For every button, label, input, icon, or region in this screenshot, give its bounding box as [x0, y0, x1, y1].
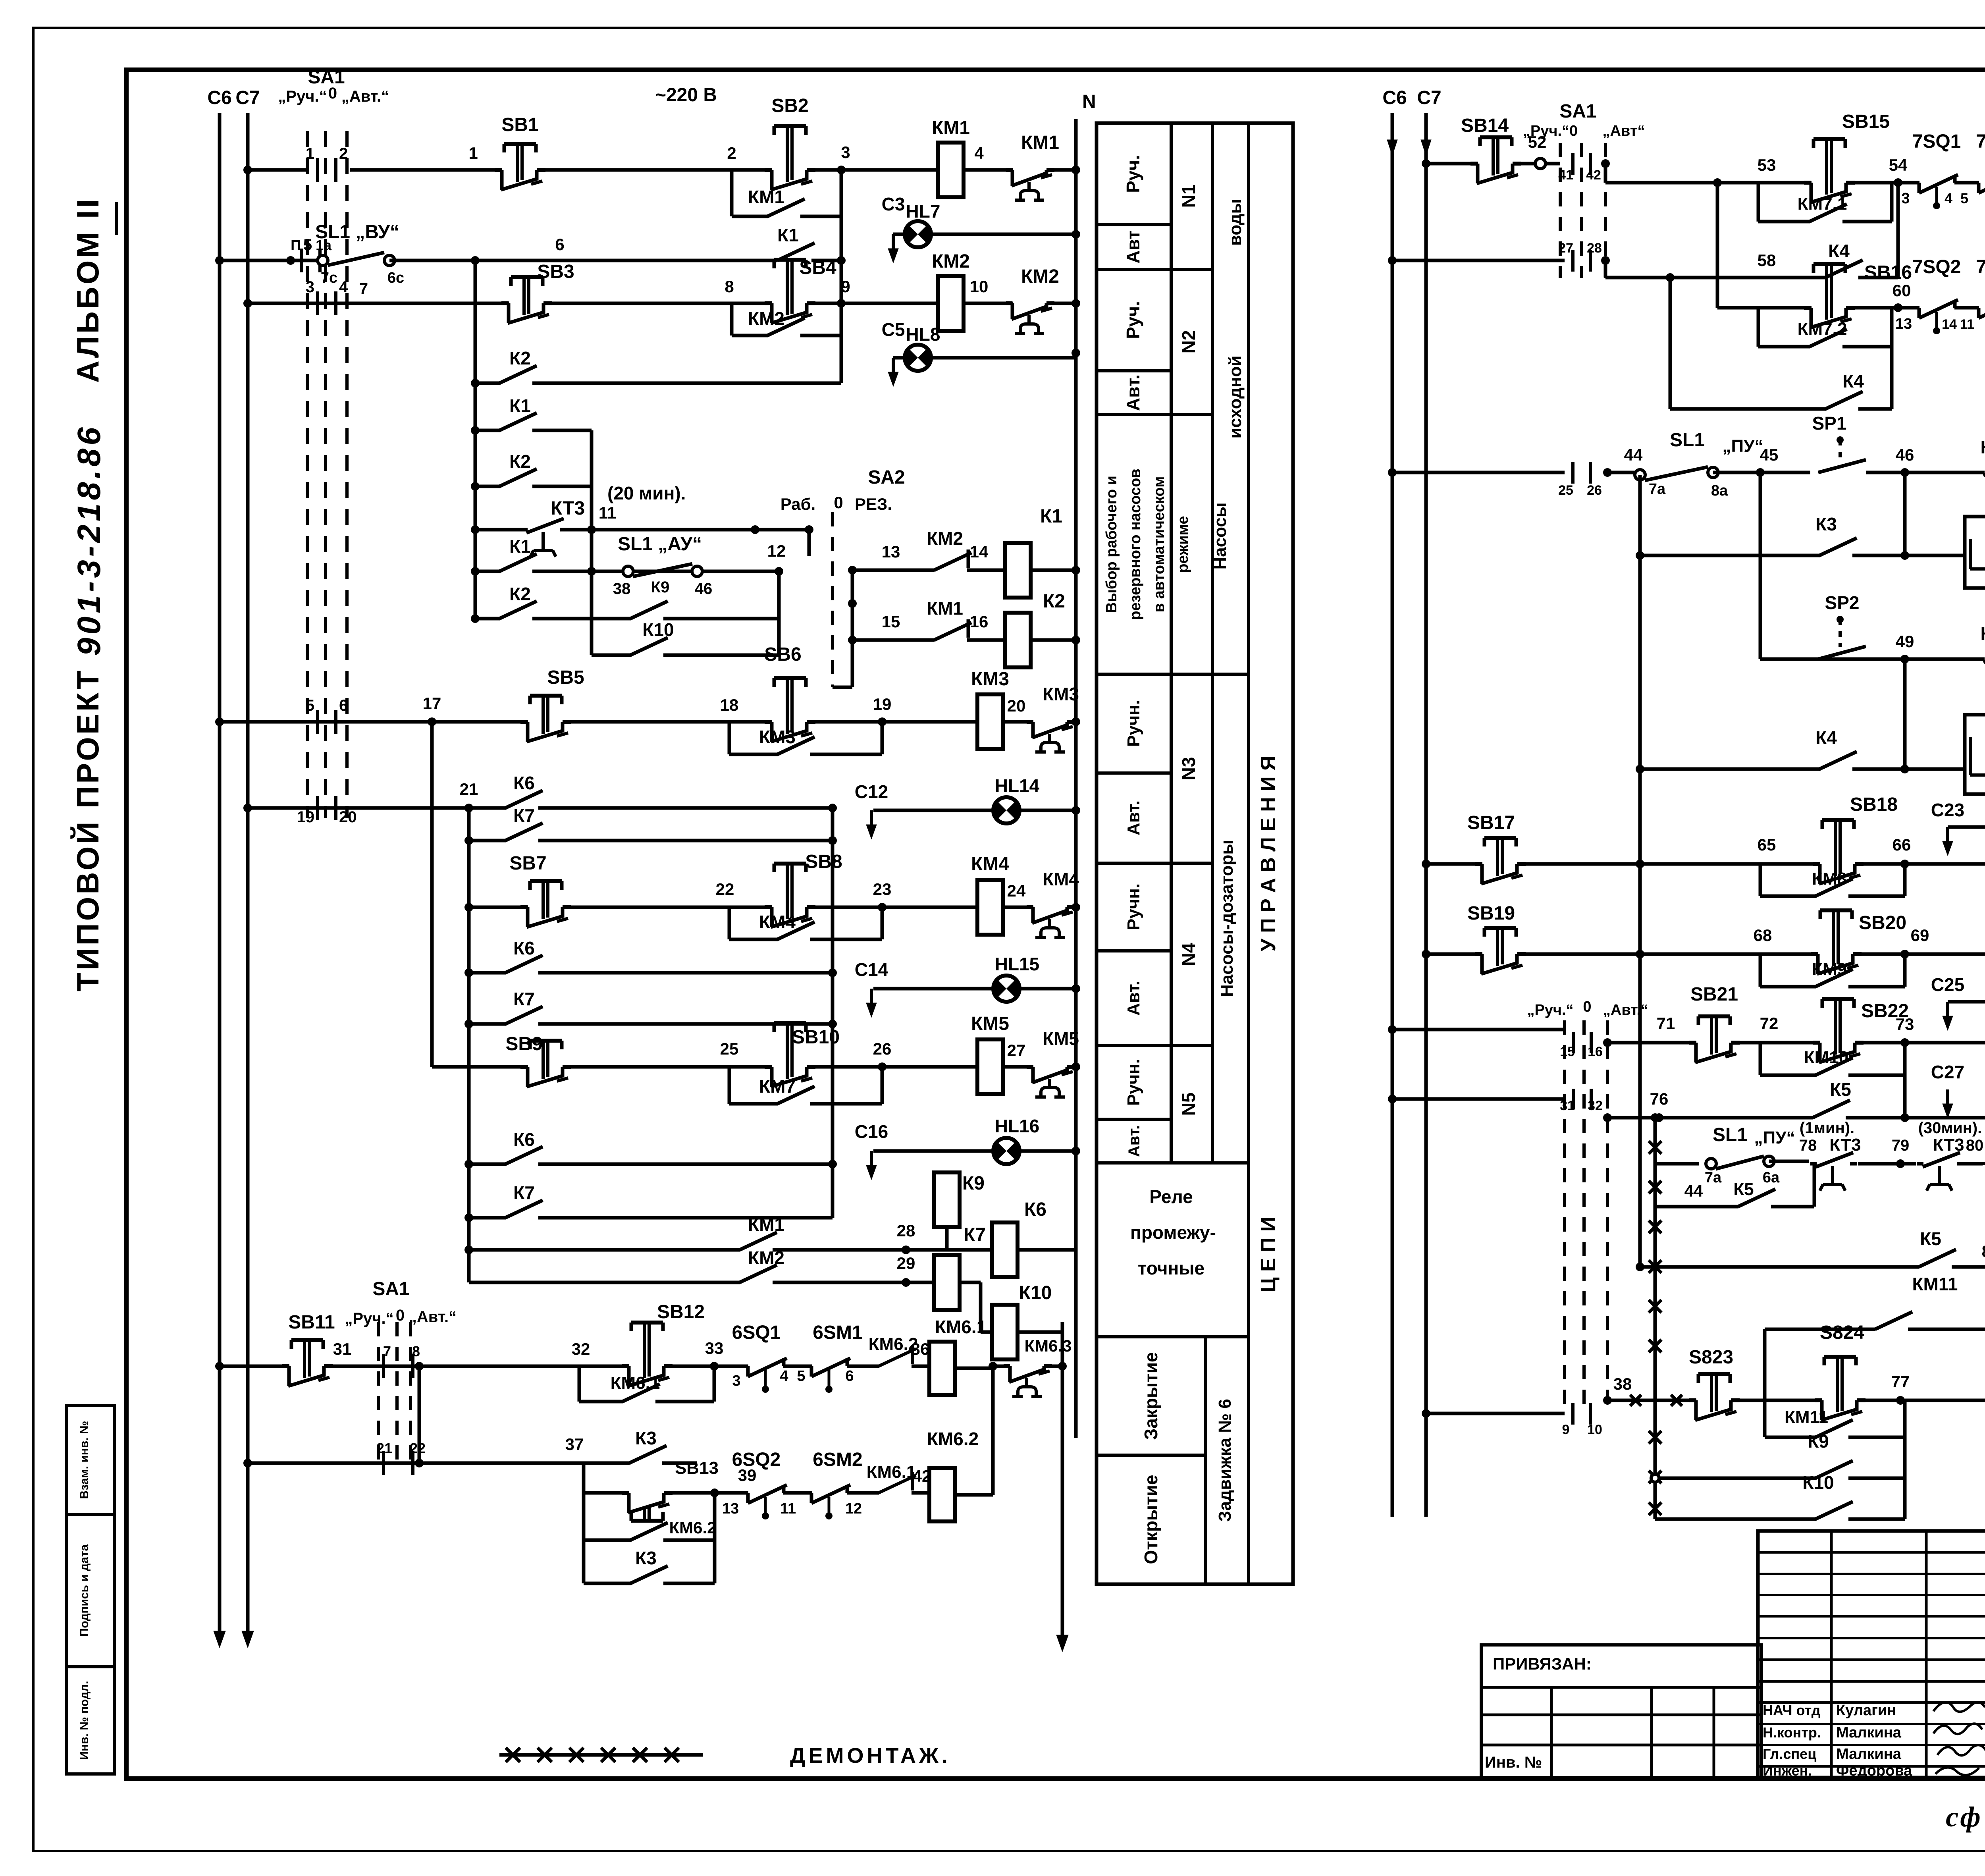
svg-text:79: 79 [1892, 1137, 1910, 1154]
svg-text:К6: К6 [513, 938, 535, 958]
svg-text:Инжен.: Инжен. [1763, 1762, 1812, 1779]
svg-text:„Авт.“: „Авт.“ [409, 1308, 457, 1326]
svg-text:Н.контр.: Н.контр. [1763, 1724, 1821, 1741]
svg-text:Авт: Авт [1123, 230, 1143, 263]
switch SL1 AU [623, 566, 633, 576]
lamp rung HL8 [892, 358, 895, 375]
lamp HL8 [905, 345, 931, 371]
lamp HL14 [993, 797, 1019, 823]
rail from node 17 [430, 722, 434, 1067]
aux contact KM3 [1033, 719, 1068, 725]
svg-text:Насосы: Насосы [1210, 502, 1230, 569]
svg-text:52: 52 [1528, 133, 1547, 151]
contact KM7.2 selfhold [1810, 344, 1842, 349]
wire selfhold KM10 [1759, 1043, 1762, 1075]
svg-text:Авт.: Авт. [1124, 800, 1143, 835]
svg-text:К9: К9 [962, 1173, 985, 1194]
wire rung K1 ladder [475, 429, 592, 432]
lamp rung HL17 [1946, 827, 1949, 844]
svg-text:71: 71 [1657, 1014, 1675, 1033]
svg-text:7: 7 [383, 1343, 391, 1359]
wire rung K3 bottom [584, 1582, 715, 1585]
svg-text:К6: К6 [513, 1129, 535, 1150]
wire KM6.1 to node [955, 1367, 993, 1370]
svg-text:3: 3 [1901, 190, 1910, 207]
demontage legend [499, 1753, 703, 1757]
push button SB9 [528, 1064, 564, 1070]
contact KM11 rung [1875, 1327, 1908, 1332]
svg-text:6: 6 [845, 1368, 854, 1384]
contact KM1 selfhold [768, 214, 800, 219]
svg-text:1: 1 [468, 144, 478, 162]
svg-text:HL14: HL14 [995, 775, 1040, 796]
svg-text:„Руч.“: „Руч.“ [1527, 1002, 1573, 1018]
wire rung K5 KT3 box [1640, 1265, 1985, 1269]
node 73 [1900, 1038, 1909, 1047]
svg-text:К7: К7 [513, 1182, 535, 1203]
svg-text:42: 42 [1586, 168, 1601, 183]
wire rung K7 third [469, 1216, 833, 1220]
svg-text:38: 38 [613, 580, 631, 598]
relay coil K2 [1005, 613, 1031, 667]
sidebar bottom boxes [67, 1406, 114, 1774]
wire rung SB23 77 [1422, 1409, 1430, 1418]
svg-text:КМ6.1: КМ6.1 [611, 1373, 660, 1393]
svg-text:26: 26 [873, 1039, 892, 1058]
svg-text:25: 25 [1558, 483, 1573, 498]
svg-text:КМ10: КМ10 [1804, 1048, 1848, 1067]
svg-text:C3: C3 [882, 194, 905, 214]
rail SB16 [1716, 183, 1719, 308]
svg-text:SB18: SB18 [1850, 794, 1898, 815]
node 54 [1894, 178, 1902, 187]
svg-text:54: 54 [1889, 156, 1908, 174]
lamp HL15 [993, 976, 1019, 1002]
wire rung KM1 to relays [469, 1248, 992, 1252]
svg-text:65: 65 [1758, 835, 1776, 854]
jumper C7 to terminals 1 2 [248, 168, 307, 172]
svg-text:КТ3: КТ3 [551, 498, 585, 519]
collector to next sheet [1052, 1365, 1062, 1368]
wire rung 53 KM7.1 [1604, 164, 1607, 183]
svg-text:режиме: режиме [1175, 516, 1191, 573]
svg-text:„Авт.“: „Авт.“ [1603, 1002, 1648, 1018]
push button SB3 [509, 301, 545, 306]
svg-text:SB21: SB21 [1690, 984, 1738, 1005]
wire rung K6 third [469, 1163, 833, 1166]
svg-text:К5: К5 [1733, 1180, 1754, 1199]
wire KT3 to KT3 [1858, 1162, 1916, 1166]
svg-text:20: 20 [339, 808, 357, 826]
svg-text:1: 1 [306, 145, 314, 162]
wire rung K10 [592, 654, 779, 657]
contact K7 second [506, 1021, 538, 1027]
svg-text:КМ3: КМ3 [1043, 684, 1079, 704]
lamp HL7 [905, 221, 931, 247]
svg-text:10: 10 [970, 277, 989, 296]
svg-text:Открытие: Открытие [1141, 1475, 1161, 1564]
svg-text:воды: воды [1226, 199, 1245, 246]
terminals 5 6 [316, 710, 319, 734]
svg-text:(20 мин).: (20 мин). [607, 483, 686, 503]
svg-text:15: 15 [882, 612, 900, 631]
svg-text:Инв. №: Инв. № [1485, 1754, 1542, 1771]
contact KM6.1 interlock [879, 1490, 912, 1496]
svg-text:14: 14 [970, 542, 989, 561]
svg-text:3: 3 [306, 278, 314, 296]
contact KM2 relay rung [740, 1280, 773, 1285]
svg-text:7SM1: 7SM1 [1976, 131, 1985, 152]
svg-text:КМ1: КМ1 [748, 187, 784, 207]
svg-text:SL1 „ВУ“: SL1 „ВУ“ [315, 222, 399, 243]
svg-text:SB1: SB1 [501, 114, 538, 135]
svg-text:SB20: SB20 [1859, 912, 1906, 933]
push button SB23 [1696, 1398, 1732, 1403]
wire selfhold KM7 [728, 1067, 731, 1104]
contact K1 [778, 258, 810, 263]
left table frame [1097, 123, 1293, 1584]
node 33 [710, 1362, 719, 1371]
lamp HL9 [1946, 1089, 1949, 1107]
svg-text:6SM2: 6SM2 [813, 1449, 862, 1470]
svg-text:К3: К3 [635, 1428, 657, 1448]
node 21 [464, 804, 473, 812]
right rail lower ladder [831, 808, 834, 1218]
svg-text:SB13: SB13 [675, 1458, 719, 1478]
svg-text:КМ6.2: КМ6.2 [927, 1429, 979, 1449]
wire K7 coil to K10 [960, 1281, 981, 1284]
title block signature grid [1758, 1531, 1985, 1778]
svg-text:сф 728-01: сф 728-01 [1946, 1801, 1985, 1833]
svg-text:„ПУ“: „ПУ“ [1723, 436, 1763, 456]
node 69 [1900, 950, 1909, 958]
push button SB7 [528, 904, 564, 910]
svg-text:исходной: исходной [1226, 355, 1245, 438]
wire rung SP2 [1760, 657, 1985, 661]
wire selfhold KM3 [728, 722, 731, 754]
svg-text:29: 29 [897, 1254, 915, 1273]
svg-text:S824: S824 [1820, 1322, 1864, 1343]
wire rung K6 second [469, 971, 833, 975]
svg-text:К6: К6 [1024, 1199, 1046, 1220]
switch SL1 VU [318, 255, 328, 266]
aux contact KM6.3 [1010, 1363, 1045, 1369]
node 23 [878, 903, 887, 912]
push button SB6 [772, 719, 808, 725]
svg-text:КМ3: КМ3 [971, 669, 1009, 690]
wire rung 76 K5 [1388, 1095, 1397, 1103]
lamp rung HL15 [870, 989, 873, 1006]
svg-text:69: 69 [1911, 926, 1929, 945]
contact K2 lower [500, 616, 532, 621]
contact KM7 selfhold [778, 1101, 810, 1107]
svg-text:7SM2: 7SM2 [1976, 256, 1985, 278]
node 66 [1900, 860, 1909, 868]
wire rung K3 contact [1640, 554, 1965, 557]
wire rung SL1 PU lower [1655, 1162, 1699, 1166]
svg-text:3: 3 [732, 1373, 740, 1389]
svg-text:К5: К5 [1830, 1079, 1851, 1100]
svg-text:SL1 „АУ“: SL1 „АУ“ [618, 534, 702, 555]
svg-text:21: 21 [460, 780, 478, 798]
svg-text:К6: К6 [513, 773, 535, 793]
svg-text:КТ1: КТ1 [1981, 437, 1985, 457]
svg-text:SB5: SB5 [547, 667, 584, 688]
push button SB21 [1696, 1040, 1732, 1045]
svg-text:ПРИВЯЗАН:: ПРИВЯЗАН: [1493, 1654, 1592, 1673]
svg-text:КМ4: КМ4 [971, 854, 1009, 875]
svg-text:К7: К7 [964, 1224, 986, 1246]
contact K1 ladder [500, 428, 532, 433]
svg-text:45: 45 [1760, 445, 1779, 464]
svg-text:14: 14 [1942, 317, 1957, 332]
terminals P 1a [300, 249, 303, 272]
wire rung KT3 [475, 528, 809, 532]
svg-text:N5: N5 [1178, 1093, 1199, 1116]
time contact KT3 [528, 527, 560, 532]
svg-text:К4: К4 [1828, 241, 1850, 261]
svg-text:SL1: SL1 [1670, 430, 1705, 451]
svg-text:SB16: SB16 [1864, 262, 1912, 283]
svg-text:SB10: SB10 [792, 1027, 840, 1048]
svg-text:К5: К5 [1920, 1228, 1941, 1249]
contact K4 rung KT2 [1820, 766, 1852, 772]
rail node 12 down [777, 571, 781, 655]
svg-text:Руч.: Руч. [1123, 301, 1143, 339]
svg-text:C14: C14 [855, 959, 888, 980]
svg-text:Выбор рабочего и: Выбор рабочего и [1103, 476, 1120, 613]
node 17 [428, 717, 436, 726]
svg-text:83: 83 [1982, 1242, 1985, 1261]
svg-text:20: 20 [1007, 696, 1026, 715]
svg-text:промежу-: промежу- [1130, 1222, 1216, 1243]
svg-text:КМ4: КМ4 [759, 912, 796, 932]
svg-text:Авт.: Авт. [1125, 1125, 1143, 1157]
svg-text:Ц Е П И: Ц Е П И [1257, 1217, 1280, 1293]
svg-text:28: 28 [897, 1221, 915, 1240]
node 26 [878, 1062, 887, 1071]
svg-text:8а: 8а [1711, 482, 1728, 499]
svg-text:32: 32 [572, 1340, 590, 1358]
node 3 [837, 166, 846, 174]
svg-text:Малкина: Малкина [1836, 1746, 1902, 1762]
wire selfhold KM2 [730, 303, 734, 335]
svg-text:22: 22 [410, 1440, 426, 1456]
wire segments rung 82 [1961, 1162, 1983, 1166]
svg-text:Инв. № подл.: Инв. № подл. [78, 1681, 91, 1760]
svg-text:точные: точные [1138, 1258, 1204, 1278]
switch SL1 PU lower [1706, 1159, 1716, 1169]
push button SB5 [528, 719, 564, 725]
wire selfhold KM7.2 [1757, 308, 1760, 347]
wire selfhold KM9 [1759, 954, 1762, 987]
svg-text:Руч.: Руч. [1123, 155, 1143, 193]
svg-text:23: 23 [873, 880, 892, 898]
svg-text:5: 5 [1960, 190, 1968, 206]
push button SB11 [289, 1363, 325, 1369]
svg-text:КТ3: КТ3 [1829, 1135, 1861, 1155]
svg-text:КМ6.2: КМ6.2 [869, 1334, 918, 1354]
svg-text:73: 73 [1896, 1015, 1914, 1033]
svg-text:7с: 7с [321, 270, 337, 286]
left rail for relay ladder [474, 260, 477, 619]
push button SB15 [1812, 180, 1847, 185]
svg-text:резервного насосов: резервного насосов [1127, 469, 1144, 620]
contact K10 [631, 652, 663, 658]
contact K3 rung [1820, 553, 1852, 558]
svg-text:S823: S823 [1689, 1347, 1733, 1368]
svg-text:КМ2: КМ2 [932, 251, 970, 272]
svg-text:46: 46 [1896, 445, 1914, 464]
svg-text:„Руч.“: „Руч.“ [278, 88, 327, 105]
wire selfhold KM6.1 [578, 1366, 581, 1402]
svg-text:КМ5: КМ5 [971, 1013, 1009, 1034]
svg-text:2: 2 [339, 145, 348, 162]
svg-text:SB3: SB3 [537, 261, 574, 282]
svg-text:КТ3: КТ3 [1933, 1135, 1964, 1155]
selector SA1 mid dashed [1563, 1020, 1566, 1413]
svg-text:К3: К3 [635, 1548, 657, 1568]
contactor coil KM6.2 [929, 1468, 955, 1521]
svg-text:37: 37 [565, 1435, 584, 1454]
svg-text:18: 18 [720, 696, 739, 714]
svg-text:38: 38 [1613, 1375, 1632, 1393]
push button SB24 [1822, 1398, 1858, 1403]
svg-text:76: 76 [1650, 1089, 1669, 1108]
push button SB16 [1812, 305, 1847, 310]
svg-text:SL1: SL1 [1713, 1124, 1748, 1145]
bus C6 right [1391, 113, 1394, 1517]
contact K7 [506, 838, 538, 843]
svg-text:58: 58 [1758, 251, 1776, 270]
push button SB17 [1482, 861, 1518, 867]
push button SB18 [1820, 861, 1856, 867]
left rail lower ladder [467, 808, 471, 1282]
svg-text:SB14: SB14 [1461, 115, 1509, 136]
wire coil KM1 to aux [964, 168, 1076, 172]
svg-text:68: 68 [1754, 926, 1772, 945]
svg-text:24: 24 [1007, 881, 1026, 900]
svg-text:К9: К9 [1808, 1431, 1829, 1452]
svg-text:9: 9 [1562, 1422, 1570, 1437]
terminals 3 4 [316, 291, 319, 315]
contact KM8 selfhold [1816, 893, 1848, 899]
svg-text:КМ8: КМ8 [1812, 869, 1847, 889]
svg-text:К1: К1 [509, 395, 531, 416]
time contact KT1 [1985, 470, 1985, 475]
svg-text:SP1: SP1 [1812, 413, 1847, 434]
svg-text:КМ7.1: КМ7.1 [1798, 194, 1847, 214]
svg-text:SB7: SB7 [509, 853, 546, 874]
limit switch 6SM1 [812, 1363, 847, 1369]
svg-text:HL16: HL16 [995, 1116, 1039, 1136]
svg-text:SA1: SA1 [1559, 101, 1596, 122]
svg-text:КМ1: КМ1 [927, 598, 963, 619]
node 60 [1894, 303, 1902, 312]
svg-text:Взам. инв. №: Взам. инв. № [78, 1421, 91, 1499]
contactor coil KM6.1 [929, 1342, 955, 1395]
svg-text:Задвижка № 6: Задвижка № 6 [1215, 1399, 1235, 1522]
svg-text:4: 4 [974, 144, 984, 162]
svg-text:КМ3: КМ3 [759, 727, 796, 747]
svg-text:5: 5 [797, 1368, 805, 1384]
limit switch 6SM2 [812, 1490, 847, 1496]
push button SB8 [772, 904, 808, 910]
svg-text:N: N [1082, 91, 1096, 112]
contact KM6.1 selfhold [623, 1399, 655, 1404]
switch S2 [1535, 158, 1546, 169]
svg-text:Реле: Реле [1149, 1186, 1193, 1207]
svg-text:N3: N3 [1178, 757, 1199, 781]
wire rung 13 K1 coil [852, 569, 1005, 572]
contact K3 bottom [631, 1581, 663, 1586]
svg-text:19: 19 [873, 695, 892, 713]
svg-text:80: 80 [1966, 1137, 1984, 1154]
contact K9 right [1816, 1475, 1848, 1481]
wire rung 37 [243, 1459, 252, 1467]
aux contact KM1 [1013, 167, 1048, 173]
svg-text:Кулагин: Кулагин [1836, 1702, 1896, 1719]
svg-text:901-3-218.86: 901-3-218.86 [71, 424, 107, 656]
svg-text:HL15: HL15 [995, 954, 1039, 974]
svg-text:6а: 6а [1763, 1169, 1780, 1186]
contact K6 [506, 805, 538, 811]
node 19 [878, 717, 887, 726]
svg-text:КМ9: КМ9 [1812, 960, 1847, 979]
svg-text:HL8: HL8 [906, 324, 940, 345]
svg-text:13: 13 [1895, 316, 1912, 332]
contact KM11 selfhold [1816, 1434, 1848, 1440]
contact K1 AU [500, 569, 532, 574]
svg-text:~220 В: ~220 В [655, 85, 717, 106]
lamp HL16 [993, 1138, 1019, 1164]
selector SA2 dashed [831, 512, 834, 687]
svg-text:SB15: SB15 [1842, 111, 1890, 132]
svg-text:„Авт.“: „Авт.“ [341, 88, 389, 105]
wire rung K4 lower [1669, 278, 1672, 409]
svg-text:66: 66 [1892, 835, 1911, 854]
aux contact KM5 [1033, 1064, 1068, 1070]
svg-text:44: 44 [1624, 445, 1643, 464]
svg-text:11: 11 [1960, 317, 1974, 332]
svg-text:7а: 7а [1705, 1169, 1722, 1186]
push button SB10 [772, 1064, 808, 1070]
svg-text:КМ4: КМ4 [1043, 869, 1079, 889]
node 9 [837, 299, 846, 308]
svg-text:КМ11: КМ11 [1912, 1274, 1958, 1294]
wire selfhold KM11 [1765, 1436, 1905, 1439]
svg-text:4: 4 [1945, 190, 1952, 206]
svg-text:11: 11 [780, 1500, 796, 1517]
jumper C6 to SA1 [220, 259, 291, 262]
push button SB2 [772, 167, 808, 173]
svg-text:22: 22 [716, 880, 734, 898]
svg-text:C25: C25 [1931, 974, 1964, 995]
svg-text:К1: К1 [777, 225, 799, 245]
contact K6 third [506, 1161, 538, 1167]
bus C7 right [1424, 113, 1428, 1517]
svg-text:КМ2: КМ2 [748, 308, 784, 329]
svg-text:3: 3 [841, 143, 850, 162]
svg-text:C6: C6 [1382, 87, 1407, 108]
lamp rung HL7 [892, 234, 895, 252]
aux contact KM2 [1013, 301, 1048, 306]
time contact KT2 [1985, 656, 1985, 662]
terminals 1 2 on SA1 [316, 158, 319, 182]
svg-text:К7: К7 [513, 805, 535, 826]
svg-text:4: 4 [339, 278, 348, 296]
svg-text:У П Р А В Л Е Н И Я: У П Р А В Л Е Н И Я [1257, 756, 1280, 951]
